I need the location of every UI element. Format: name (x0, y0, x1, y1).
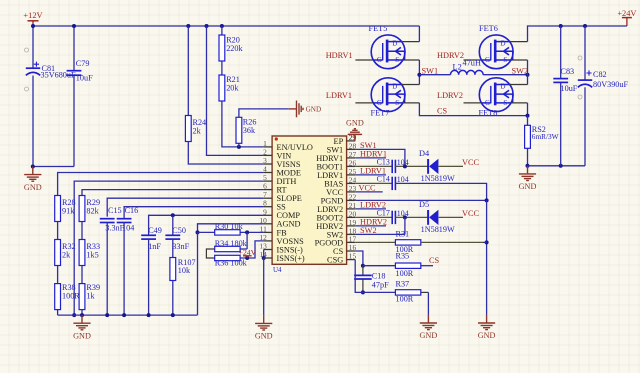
ground GND pgnd (478, 315, 495, 330)
diode D5 (427, 210, 429, 225)
pin 9 COMP (264, 214, 273, 216)
svg-text:D: D (392, 83, 397, 90)
ground GND EP (348, 133, 361, 135)
wire pin24 BIAS to C14 (355, 182, 392, 184)
pin 27 HDRV1 (347, 157, 356, 159)
wire pin20 BOOT2 to C17 (355, 216, 392, 218)
svg-text:GND: GND (306, 106, 322, 114)
svg-text:LDRV2: LDRV2 (437, 91, 463, 100)
svg-text:SW2: SW2 (360, 226, 377, 235)
wire pin25 LDRV1 (355, 174, 386, 176)
ground GND r37 (420, 315, 437, 330)
svg-text:C50: C50 (172, 226, 186, 235)
pin 4 MODE (264, 172, 273, 174)
svg-text:S: S (503, 100, 507, 107)
pin 21 LDRV2 (347, 208, 356, 210)
junction R26 bottom (237, 145, 241, 149)
capacitor C13 (391, 160, 393, 173)
inductor L2 (451, 70, 484, 74)
wire pin5 DITH to gnd rail (74, 181, 263, 315)
capacitor C15 (100, 218, 115, 220)
capacitor C82 (578, 79, 592, 81)
pin 28 SW1 (347, 148, 356, 150)
wire R31 right to pgnd column (421, 241, 483, 243)
svg-text:1k: 1k (86, 292, 95, 301)
svg-text:C18: C18 (372, 271, 386, 280)
wire pin6 RT to R29 (82, 190, 264, 196)
svg-text:LDRV1: LDRV1 (326, 91, 352, 100)
svg-text:R35: R35 (396, 251, 410, 260)
pin 14 ISNS(+) (264, 257, 273, 259)
wire R24 top (187, 26, 189, 116)
polarity marks C81 (25, 48, 29, 52)
wire R39 to rail (81, 310, 83, 316)
wire D4 to VCC (439, 165, 463, 167)
wire C16 to rail (123, 223, 125, 316)
wire C17 to D5 (395, 216, 428, 218)
svg-text:D5: D5 (419, 200, 429, 209)
resistor R36 (215, 255, 240, 260)
wire R29-R33 (81, 222, 83, 240)
junction boot1 sw1 (403, 164, 407, 168)
svg-text:+24V: +24V (617, 9, 636, 18)
svg-text:HDRV2: HDRV2 (437, 51, 464, 60)
svg-text:2k: 2k (62, 250, 71, 259)
wire csg node to R37 (363, 291, 396, 293)
wire R34-R36 left bracket (206, 249, 214, 258)
wire pin21 LDRV2 (355, 208, 386, 210)
wire SW1 to L2 (419, 74, 450, 76)
svg-text:D: D (501, 40, 506, 47)
svg-text:G: G (377, 57, 382, 64)
op-amp U4 body (272, 136, 347, 264)
pin 23 VCC (347, 191, 356, 193)
junction C49 rail (147, 313, 151, 317)
resistor R34 (215, 246, 240, 251)
wire COMP branch to C50 (172, 215, 174, 235)
pin 19 HDRV2 (347, 225, 356, 227)
wire C49 to rail (148, 239, 150, 315)
junction C16 rail (122, 313, 126, 317)
pin 20 BOOT2 (347, 216, 356, 218)
svg-text:G: G (485, 57, 490, 64)
capacitor C49 (141, 234, 156, 236)
wire R30 right to pin11 FB (240, 231, 264, 233)
transistor FET8 (464, 78, 528, 112)
resistor R20 (219, 35, 225, 61)
svg-text:CS: CS (429, 256, 440, 265)
svg-text:1N5819W: 1N5819W (421, 225, 455, 234)
svg-text:82k: 82k (86, 206, 99, 215)
pin 12 VOSNS (264, 240, 273, 242)
svg-text:C17: C17 (377, 209, 390, 218)
svg-text:D: D (392, 40, 397, 47)
wire pgnd column (486, 200, 488, 315)
resistor R21 (219, 75, 225, 101)
svg-text:10k: 10k (178, 266, 191, 275)
svg-text:R34 180k: R34 180k (215, 239, 248, 248)
wire FET8 source to CS (527, 103, 529, 116)
junction C81 rail (31, 24, 35, 28)
svg-text:100R: 100R (396, 269, 414, 278)
svg-text:14: 14 (259, 250, 267, 259)
ground GND rs2 (519, 166, 536, 181)
svg-text:D: D (501, 83, 506, 90)
pin 15 CSG (347, 259, 356, 261)
junction R107 rail (171, 313, 175, 317)
svg-text:R36 100k: R36 100k (215, 259, 248, 268)
svg-text:C14: C14 (377, 175, 390, 184)
wire CS to RS2 (527, 116, 529, 126)
wire +12V rail drop to FET5 drain (418, 26, 420, 42)
wire R32-R38 (57, 266, 59, 284)
svg-text:20k: 20k (226, 84, 239, 93)
capacitor C16 (117, 218, 132, 220)
transistor FET6 (464, 35, 528, 69)
svg-text:VCC: VCC (462, 158, 480, 167)
svg-text:S: S (503, 57, 507, 64)
svg-text:R37: R37 (396, 279, 410, 288)
svg-text:C16: C16 (125, 206, 139, 215)
pin 26 BOOT1 (347, 165, 356, 167)
pin 24 BIAS (347, 182, 356, 184)
wire R24 bottom to pin3 VISNS (188, 142, 263, 165)
junction C79 rail (72, 24, 76, 28)
wire C79 column (73, 26, 75, 71)
wire C83 column (560, 26, 562, 79)
junction COMP branch (171, 213, 175, 217)
junction SW1 (417, 73, 421, 77)
pin 17 PGOOD (347, 241, 356, 243)
pin 1 EN/UVLO (264, 146, 273, 148)
wire pin13 ISNS- down (263, 250, 265, 259)
junction C15 rail (105, 313, 109, 317)
pin 22 PGND (347, 199, 356, 201)
pin 13 ISNS(-) (264, 249, 273, 251)
resistor R37 (395, 290, 420, 295)
wire AGND column to rail (197, 232, 199, 315)
wire C14 to pgnd column (395, 183, 486, 200)
wire R36 right to +24V node (240, 241, 264, 258)
wire cs node to C18 (362, 266, 364, 276)
svg-text:U4: U4 (273, 266, 282, 274)
pin 18 SW2 (347, 233, 356, 235)
svg-text:1N5819W: 1N5819W (421, 174, 455, 183)
wire bottom gnd rail (58, 314, 198, 316)
capacitor C18 (354, 274, 372, 276)
wire R33-R39 (81, 266, 83, 284)
svg-text:R30 10k: R30 10k (215, 222, 244, 231)
wire RS2 bottom (527, 148, 529, 166)
wire +12V top rail (33, 25, 419, 27)
wire +24V top rail (528, 26, 627, 42)
svg-text:FET6: FET6 (479, 24, 498, 33)
junction R24 rail (186, 24, 190, 28)
svg-text:C49: C49 (148, 226, 162, 235)
pin 11 FB (264, 231, 273, 233)
wire pin17 PGOOD to R31 (355, 241, 395, 243)
wire R34 right stub (240, 248, 247, 250)
junction R20 rail (220, 24, 224, 28)
capacitor C81 (26, 67, 40, 69)
ground GND left rail (73, 315, 90, 330)
svg-text:47uH: 47uH (463, 58, 481, 67)
svg-text:S: S (395, 100, 399, 107)
junction input gnd (31, 165, 35, 169)
junction R39 rail (80, 313, 84, 317)
pin 5 DITH (264, 180, 273, 182)
wire FET5 source to SW1 (418, 60, 420, 85)
junction C83 rail (559, 24, 563, 28)
resistor R24 (185, 116, 191, 142)
svg-text:FET5: FET5 (369, 24, 388, 33)
pin 10 AGND (264, 223, 273, 225)
transistor FET7 (355, 78, 419, 112)
svg-text:G: G (485, 100, 490, 107)
wire boot2 to SW2 row (404, 217, 406, 234)
svg-text:15: 15 (349, 252, 357, 261)
junction +24V node (245, 256, 249, 260)
capacitor C14 (391, 177, 393, 190)
wire pin9 COMP to C49 (149, 215, 264, 235)
resistor R26 (236, 117, 242, 143)
wire C18 bottom (362, 279, 364, 292)
wire pin27 HDRV1 (355, 157, 386, 159)
junction AGND/R30/rail (196, 230, 200, 234)
wire pin4 MODE to R28 (58, 173, 264, 196)
svg-text:47pF: 47pF (372, 280, 389, 289)
svg-text:36k: 36k (243, 126, 256, 135)
wire R30 left (198, 231, 215, 233)
pin 6 RT (264, 189, 273, 191)
wire L2 to SW2 (483, 74, 527, 76)
pin 7 SLOPE (264, 197, 273, 199)
resistor R33 (79, 240, 85, 266)
wire pin28 SW1 to boot1 (355, 149, 405, 166)
pin 8 SS (264, 206, 273, 208)
resistor R28 (55, 196, 61, 222)
junction CS RS2 (526, 114, 530, 118)
resistor R32 (55, 240, 61, 266)
svg-text:100R: 100R (62, 292, 80, 301)
capacitor C17 (391, 211, 393, 224)
svg-text:R31: R31 (396, 230, 410, 239)
capacitor C50 (165, 234, 180, 236)
wire output bottom (528, 165, 586, 167)
wire C81 column (32, 26, 34, 68)
junction pgood/pgnd (485, 240, 489, 244)
svg-text:10uF: 10uF (76, 73, 93, 82)
wire input gnd (33, 166, 74, 168)
svg-text:ISNS(+): ISNS(+) (277, 254, 305, 263)
wire pin22 PGND (355, 199, 486, 201)
svg-text:C79: C79 (76, 59, 90, 68)
wire rail to pin2 VIN (207, 26, 264, 155)
svg-text:33nF: 33nF (172, 242, 189, 251)
pin 29 EP (347, 140, 356, 142)
svg-text:GND: GND (255, 332, 273, 341)
svg-text:6mR/3W: 6mR/3W (532, 132, 559, 141)
diode D4 (427, 159, 429, 174)
wire R20 top (221, 26, 223, 35)
svg-text:GND: GND (420, 331, 438, 340)
svg-text:HDRV1: HDRV1 (326, 51, 353, 60)
wire cs node to R35 (363, 265, 396, 267)
svg-text:GND: GND (73, 331, 91, 340)
wire pin7 SLOPE to C15 (107, 198, 263, 216)
svg-text:L2: L2 (453, 62, 462, 71)
pin 16 CS (347, 250, 356, 252)
svg-text:GND: GND (346, 119, 364, 128)
svg-text:GND: GND (478, 331, 496, 340)
svg-text:220k: 220k (226, 44, 243, 53)
svg-text:SW2: SW2 (512, 67, 529, 76)
junction C82 rail (583, 24, 587, 28)
wire C50 to R107 (172, 239, 174, 257)
wire R28-R32 (57, 222, 59, 240)
capacitor C79 (67, 70, 82, 72)
svg-text:D4: D4 (419, 149, 430, 158)
svg-text:CSG: CSG (327, 256, 343, 265)
svg-text:2k: 2k (193, 127, 202, 136)
svg-text:C82: C82 (593, 70, 607, 79)
resistor R39 (79, 284, 85, 310)
polarity marks C82 (578, 56, 582, 60)
svg-text:S: S (395, 57, 399, 64)
wire pin8 SS to C16 (124, 207, 264, 219)
wire FET7 source to CS (419, 103, 527, 116)
svg-text:G: G (377, 100, 382, 107)
wire C15 to rail (106, 223, 108, 316)
wire R21 bottom to pin1 EN (222, 101, 264, 147)
svg-text:GND: GND (24, 183, 42, 192)
wire pin23 VCC (355, 191, 383, 193)
svg-text:1nF: 1nF (148, 242, 161, 251)
svg-text:FET7: FET7 (371, 108, 390, 117)
junction RS2 gnd (526, 164, 530, 168)
wire R26 bottom stub (238, 143, 240, 147)
wire R37 right to gnd (421, 291, 429, 293)
wire FET6 source to FET8 drain (527, 60, 529, 85)
junction FB node (245, 230, 249, 234)
svg-text:91k: 91k (62, 206, 75, 215)
resistor R35 (395, 263, 420, 268)
transistor FET5 (355, 35, 419, 69)
wire pin10 AGND down (198, 224, 264, 233)
resistor RS2 (525, 125, 531, 148)
junction csg node (361, 290, 365, 294)
pin 25 LDRV1 (347, 174, 356, 176)
wire R38 to rail (57, 310, 59, 316)
wire D5 to VCC (439, 216, 463, 218)
ground GND input (24, 167, 41, 182)
capacitor C83 (553, 78, 568, 80)
wire C13 to D4 (395, 165, 428, 167)
ground GND isns (255, 315, 272, 330)
wire pin18 SW2 (355, 233, 405, 235)
resistor R31 (395, 240, 420, 245)
junction cs node (361, 264, 365, 268)
junction boot2 sw2 (403, 215, 407, 219)
junction SW2 (526, 73, 530, 77)
wire R35 right (421, 265, 433, 267)
svg-text:CS: CS (437, 106, 448, 115)
resistor R107 (170, 258, 176, 281)
svg-text:1k5: 1k5 (86, 250, 98, 259)
junction VIN drop rail (205, 24, 209, 28)
svg-text:10uF: 10uF (561, 84, 578, 93)
wire R107 to rail (172, 281, 174, 316)
wire pin26 BOOT1 to C13 (355, 165, 392, 167)
svg-text:VCC: VCC (359, 183, 377, 192)
svg-text:GND: GND (519, 182, 537, 191)
resistor R30 (215, 230, 240, 235)
junction pgnd (485, 198, 489, 202)
svg-text:VCC: VCC (462, 209, 480, 218)
wire pin16 CS down (355, 251, 363, 266)
pin 2 VIN (264, 154, 273, 156)
wire pin15 CSG down (355, 260, 363, 293)
pin 3 VISNS (264, 163, 273, 165)
junction ISNS node (262, 256, 266, 260)
wire FB to R34 (246, 232, 248, 249)
svg-text:C15: C15 (108, 206, 122, 215)
wire R26 top to gnd (239, 109, 289, 117)
ground GND mid (horizontal) (289, 101, 303, 118)
resistor R38 (55, 284, 61, 310)
svg-text:C83: C83 (561, 67, 575, 76)
wire R20-R21 (221, 61, 223, 75)
wire ISNS node to gnd (263, 258, 265, 315)
svg-text:29: 29 (349, 133, 357, 142)
wire pin19 HDRV2 (355, 225, 386, 227)
junction C83 bottom (559, 164, 563, 168)
svg-text:100R: 100R (396, 295, 414, 304)
svg-text:80V390uF: 80V390uF (593, 80, 628, 89)
junction DITH rail (72, 313, 76, 317)
svg-text:C13: C13 (377, 158, 390, 167)
wire C82 column (584, 26, 586, 80)
resistor R29 (79, 196, 85, 222)
svg-text:+12V: +12V (23, 11, 42, 20)
